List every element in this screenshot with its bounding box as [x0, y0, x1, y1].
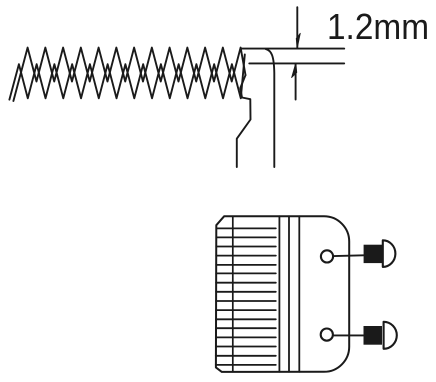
top screw hole — [321, 250, 333, 262]
dimension up-arrow — [295, 64, 297, 100]
bottom connector line — [334, 334, 364, 336]
svg-text:1.2mm: 1.2mm — [327, 6, 429, 47]
stepped profile at blade front — [237, 75, 251, 167]
bottom screw hole — [321, 329, 333, 341]
bottom screw: black head — [364, 326, 383, 345]
vertical band lines — [278, 216, 280, 371]
inner vertical line near left — [232, 216, 234, 371]
tall-teeth zigzag (upper blade edge) — [13, 48, 245, 101]
blade outline with chamfered left corners and rounded right corners — [216, 216, 349, 372]
blade body rounded corner and vertical edge — [266, 49, 275, 167]
teeth hatch lines — [216, 228, 276, 365]
upper horizontal line (top blade edge) — [241, 48, 345, 50]
short-teeth zigzag (lower blade edge) continuing into lower horizontal line — [9, 55, 244, 100]
dimension down-arrow — [296, 7, 298, 47]
top screw: black head — [364, 245, 383, 263]
top connector line — [334, 254, 364, 257]
lower horizontal line (cutter blade edge) — [249, 62, 344, 64]
top screw: dome — [383, 240, 396, 267]
bottom screw: dome — [384, 322, 397, 349]
